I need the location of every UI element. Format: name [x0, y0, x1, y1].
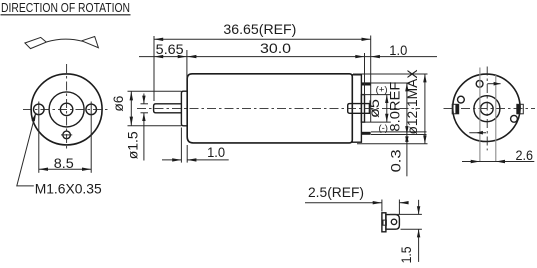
- detail view: right extension line: [398, 200, 400, 215]
- extension line terminal bottom upper: [371, 131, 427, 133]
- dimension 2.6 right arrow: [496, 160, 505, 163]
- dimension 2.5(REF) right line with arrow: [399, 202, 407, 204]
- rotation arrow right triangle head: [82, 37, 99, 48]
- rear view: horizontal centerline: [444, 108, 536, 110]
- dimension phi12.1MAX bottom arrow: [423, 135, 426, 143]
- dimension 8.0REF top arrow: [405, 83, 408, 91]
- dimension phi5 top arrow: [385, 95, 388, 103]
- dimension 8.0REF top extension line: [371, 82, 410, 84]
- svg-text:ø12.1MAX: ø12.1MAX: [404, 69, 420, 135]
- dimension 0.3 up arrow: [405, 135, 408, 142]
- dimension phi1.5 top extension stub: [141, 103, 149, 105]
- extension line body bottom: [357, 143, 428, 145]
- front view: horizontal centerline: [23, 108, 110, 110]
- dimension 0.3 line: [406, 135, 408, 177]
- rear view: slot left line: [479, 68, 481, 162]
- side view: motor body: [187, 74, 352, 143]
- dimension 36.65(REF) line: [154, 38, 371, 40]
- dimension 30.0 left arrow: [187, 55, 196, 58]
- dimension phi6 bottom extension line: [128, 125, 182, 127]
- svg-text:ø5: ø5: [366, 99, 382, 118]
- detail view: terminal hole: [391, 219, 396, 224]
- front view: left hole vertical centerline + extension to 8.5 dim: [38, 102, 40, 173]
- dimension 1.0 boss right line with arrow: [187, 159, 229, 161]
- svg-text:5.65: 5.65: [156, 41, 184, 57]
- dimension 36.65 left arrow: [154, 38, 163, 41]
- front view: left mounting hole: [34, 104, 45, 115]
- front view: motor outer circle: [31, 74, 102, 145]
- dimension 1.0 right arrow: [371, 55, 380, 58]
- detail view: terminal tab rounded: [386, 215, 400, 230]
- side view: rear bearing and shaft end: [348, 104, 370, 114]
- svg-text:8.0REF: 8.0REF: [386, 82, 402, 132]
- dimension 1.0 boss left line with arrow: [162, 159, 181, 161]
- front view: right hole vertical centerline + extension to 8.5 dim: [90, 102, 92, 173]
- front view: bottom hole horizontal tick: [61, 134, 72, 136]
- leader line M1.6X0.35: [17, 113, 36, 186]
- detail view: left extension line: [381, 200, 383, 212]
- extension line shaft tip: [153, 36, 155, 101]
- dimension 1.5 top extension line: [390, 213, 422, 215]
- svg-text:ø1.5: ø1.5: [124, 131, 140, 159]
- extension line body top: [353, 73, 428, 75]
- dimension 1.0 boss right extension line: [186, 145, 188, 163]
- rear view: bottom inner arrow: [469, 131, 486, 135]
- rotation direction arc arrow: [46, 39, 82, 42]
- front view: middle boss circle: [49, 92, 84, 127]
- svg-text:8.5: 8.5: [54, 155, 74, 171]
- svg-text:1.0: 1.0: [207, 144, 225, 160]
- dimension 1.5 upper line with arrow: [418, 200, 420, 215]
- dimension 8.5 line: [39, 168, 91, 170]
- dimension phi5 line: [386, 95, 388, 123]
- dimension phi1.5 upper line with arrow: [143, 94, 145, 104]
- side view: top terminal: [361, 82, 370, 85]
- dimension 8.0REF bottom arrow: [405, 126, 408, 134]
- dimension row line 5.65 / 30.0 / 1.0: [139, 56, 437, 58]
- svg-text:1.5: 1.5: [398, 246, 414, 263]
- dimension phi5 bottom arrow: [385, 114, 388, 122]
- rear view: left vent hole: [458, 96, 465, 103]
- rear view: top vent hole: [476, 80, 483, 87]
- dimension 8.0REF line: [406, 83, 408, 135]
- leader arrowhead: [32, 112, 37, 121]
- front view: vertical centerline: [66, 64, 68, 151]
- dimension phi5 bottom extension line: [362, 121, 391, 123]
- front view: right mounting hole: [86, 104, 97, 115]
- dimension phi5 top extension line: [362, 94, 391, 96]
- dimension 1.0 boss left extension line: [180, 128, 182, 163]
- dimension phi6 line: [130, 91, 132, 126]
- side view: horizontal centerline: [137, 107, 420, 109]
- dimension 5.65 right arrow: [178, 55, 187, 58]
- side view: shaft: [154, 104, 182, 113]
- rear view: top inner arrow: [487, 82, 500, 86]
- dimension 5.65 left arrow: [154, 55, 163, 58]
- side view: bottom terminal: [361, 132, 370, 135]
- svg-text:36.65(REF): 36.65(REF): [223, 21, 296, 37]
- front view: shaft circle: [60, 103, 72, 115]
- svg-text:30.0: 30.0: [260, 40, 291, 56]
- extension line terminal end: [370, 36, 372, 123]
- front view: bottom small hole: [63, 131, 71, 139]
- detail view: terminal slot: [383, 220, 386, 225]
- dimension 0.3 down arrow: [405, 136, 408, 143]
- rear view: left terminal tab: [452, 104, 459, 114]
- rotation arrow left parallelogram head: [25, 37, 46, 48]
- svg-text:1.0: 1.0: [389, 42, 407, 58]
- dimension phi1.5 lower line with arrow: [143, 113, 145, 161]
- svg-text:2.5(REF): 2.5(REF): [308, 184, 364, 200]
- dimension 1.5 lower line with arrow: [418, 229, 420, 262]
- dimension 8.5 left arrow: [39, 168, 48, 171]
- dimension 8.5 right arrow: [82, 168, 91, 171]
- dimension 2.6 line: [462, 161, 534, 163]
- svg-text:0.3: 0.3: [388, 149, 404, 172]
- dimension phi12.1MAX top arrow: [423, 74, 426, 82]
- svg-text:ø6: ø6: [110, 95, 126, 111]
- dimension phi6 bottom arrow: [130, 117, 133, 126]
- dimension 2.5(REF) left line with arrow: [305, 202, 382, 204]
- dimension phi6 top extension line: [128, 90, 182, 92]
- dimension 30.0 right arrow: [355, 55, 364, 58]
- rear view: slot right line: [495, 75, 497, 162]
- svg-text:DIRECTION OF ROTATION: DIRECTION OF ROTATION: [1, 0, 130, 15]
- svg-text:2.6: 2.6: [516, 147, 534, 163]
- rear view: vertical centerline: [486, 67, 488, 151]
- dimension phi1.5 bottom extension stub: [141, 112, 149, 114]
- dimension 8.0REF bottom extension line: [371, 134, 427, 136]
- rear view: outer circle: [453, 74, 520, 141]
- side view: front bearing boss: [181, 91, 187, 126]
- rear view: shaft end circle: [481, 102, 494, 115]
- dimension 1.5 bottom extension line: [401, 228, 422, 230]
- side view: rear bearing boss phi5: [361, 95, 364, 123]
- dimension phi12.1MAX line: [424, 74, 426, 144]
- title text DIRECTION OF ROTATION: [1, 0, 131, 15]
- rear view: bottom right vent hole: [511, 115, 518, 122]
- rear view: bearing boss circle: [474, 96, 500, 122]
- extension line rear boss face: [364, 53, 366, 94]
- dimension 36.65 right arrow: [362, 38, 371, 41]
- extension line body front face: [186, 50, 188, 91]
- dimension phi6 top arrow: [130, 91, 133, 100]
- rear view: right terminal tab: [517, 104, 524, 114]
- side view: rear end cap: [352, 75, 361, 142]
- svg-text:M1.6X0.35: M1.6X0.35: [35, 181, 102, 197]
- detail view: terminal plate: [382, 213, 386, 232]
- dimension 2.6 left arrow: [471, 160, 480, 163]
